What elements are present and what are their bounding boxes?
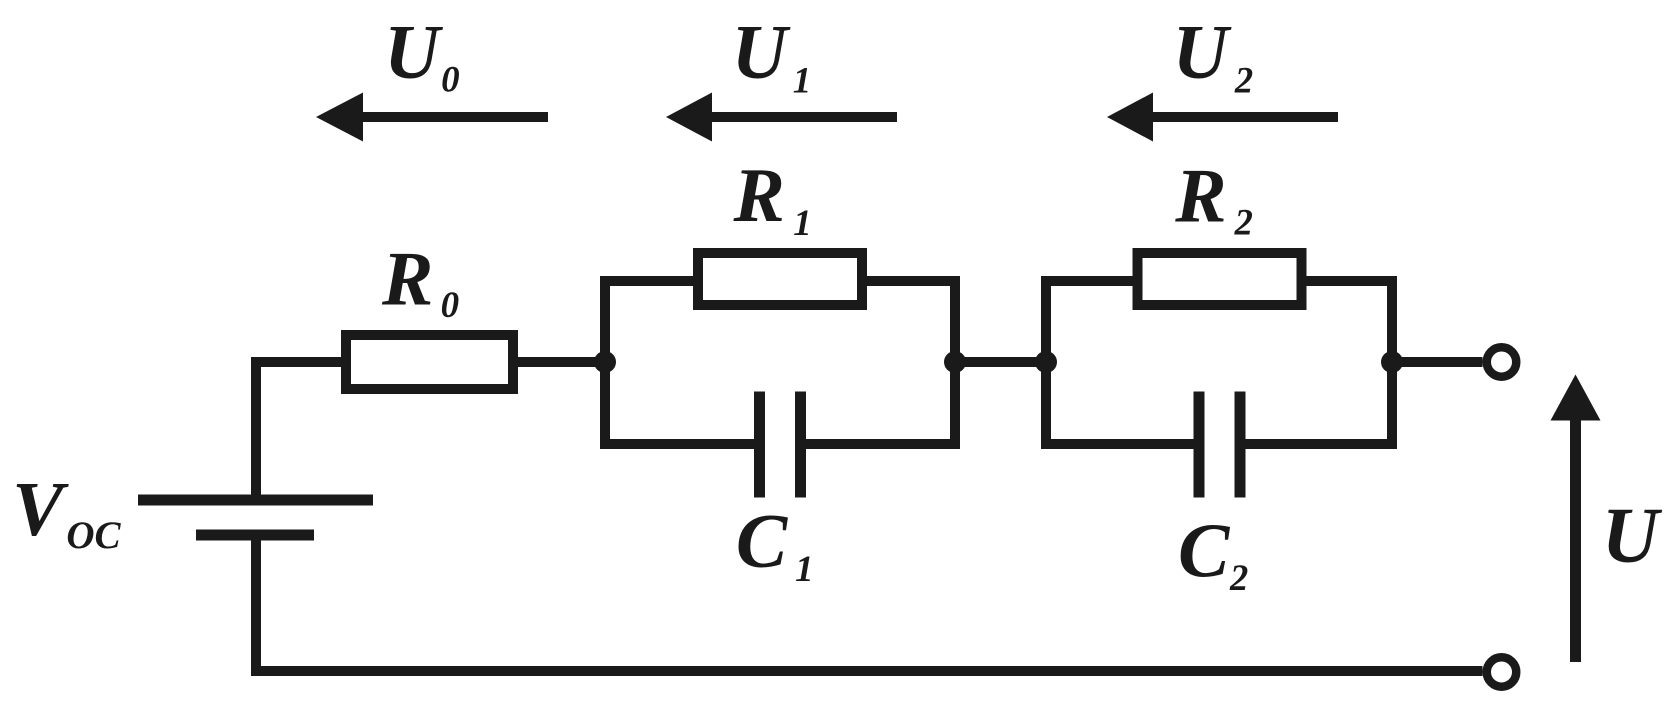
svg-text:R: R xyxy=(733,152,785,238)
capacitor C2 right plate xyxy=(1235,392,1246,498)
svg-text:OC: OC xyxy=(66,514,121,557)
battery Voc negative plate xyxy=(196,530,314,541)
arrow U2 xyxy=(1153,112,1338,122)
node C xyxy=(1035,351,1057,373)
resistor R1 xyxy=(698,253,862,305)
arrow U output xyxy=(1570,420,1581,662)
terminal minus bottom xyxy=(1487,657,1517,687)
wire RC2 left rail and top lead xyxy=(1046,281,1133,449)
capacitor C2 left plate xyxy=(1194,392,1205,498)
terminal plus top xyxy=(1487,347,1517,377)
wire battery top to R0 xyxy=(256,362,341,499)
node A xyxy=(594,351,616,373)
svg-text:U: U xyxy=(384,9,443,95)
wire battery bottom and bottom rail xyxy=(256,536,1483,671)
svg-text:1: 1 xyxy=(793,203,812,244)
wire RC2 bottom right lead xyxy=(1246,439,1398,449)
svg-text:2: 2 xyxy=(1234,202,1253,243)
wire RC1 left rail and top lead xyxy=(605,281,693,449)
wire RC1 bottom left lead xyxy=(600,439,754,449)
wire RC2 right rail and top lead xyxy=(1307,281,1393,449)
resistor R0 xyxy=(346,335,513,389)
svg-text:R: R xyxy=(381,236,433,322)
svg-text:2: 2 xyxy=(1229,557,1248,598)
svg-text:V: V xyxy=(12,466,69,552)
svg-text:0: 0 xyxy=(441,285,460,326)
arrow U1 xyxy=(712,112,897,122)
resistor R2 xyxy=(1138,253,1302,305)
capacitor C1 left plate xyxy=(754,392,765,498)
capacitor C1 right plate xyxy=(795,392,806,498)
wire node B to node C xyxy=(955,357,1046,367)
svg-text:U: U xyxy=(732,9,791,95)
svg-text:U: U xyxy=(1602,493,1663,580)
wire RC2 bottom left lead xyxy=(1041,439,1194,449)
svg-text:C: C xyxy=(1178,507,1231,593)
wire node D to terminal xyxy=(1392,357,1483,367)
svg-text:C: C xyxy=(736,498,789,584)
svg-text:1: 1 xyxy=(795,549,814,590)
svg-text:1: 1 xyxy=(793,60,812,101)
node D xyxy=(1381,351,1403,373)
svg-text:U: U xyxy=(1173,9,1232,95)
svg-text:0: 0 xyxy=(441,60,460,101)
wire R0 to node A xyxy=(513,357,605,367)
svg-text:2: 2 xyxy=(1234,60,1253,101)
svg-text:R: R xyxy=(1174,153,1226,239)
node B xyxy=(944,351,966,373)
wire RC1 right rail and top lead xyxy=(867,281,955,449)
arrow U0 xyxy=(363,112,548,122)
wire RC1 bottom right lead xyxy=(806,439,960,449)
battery Voc positive plate xyxy=(138,495,373,506)
